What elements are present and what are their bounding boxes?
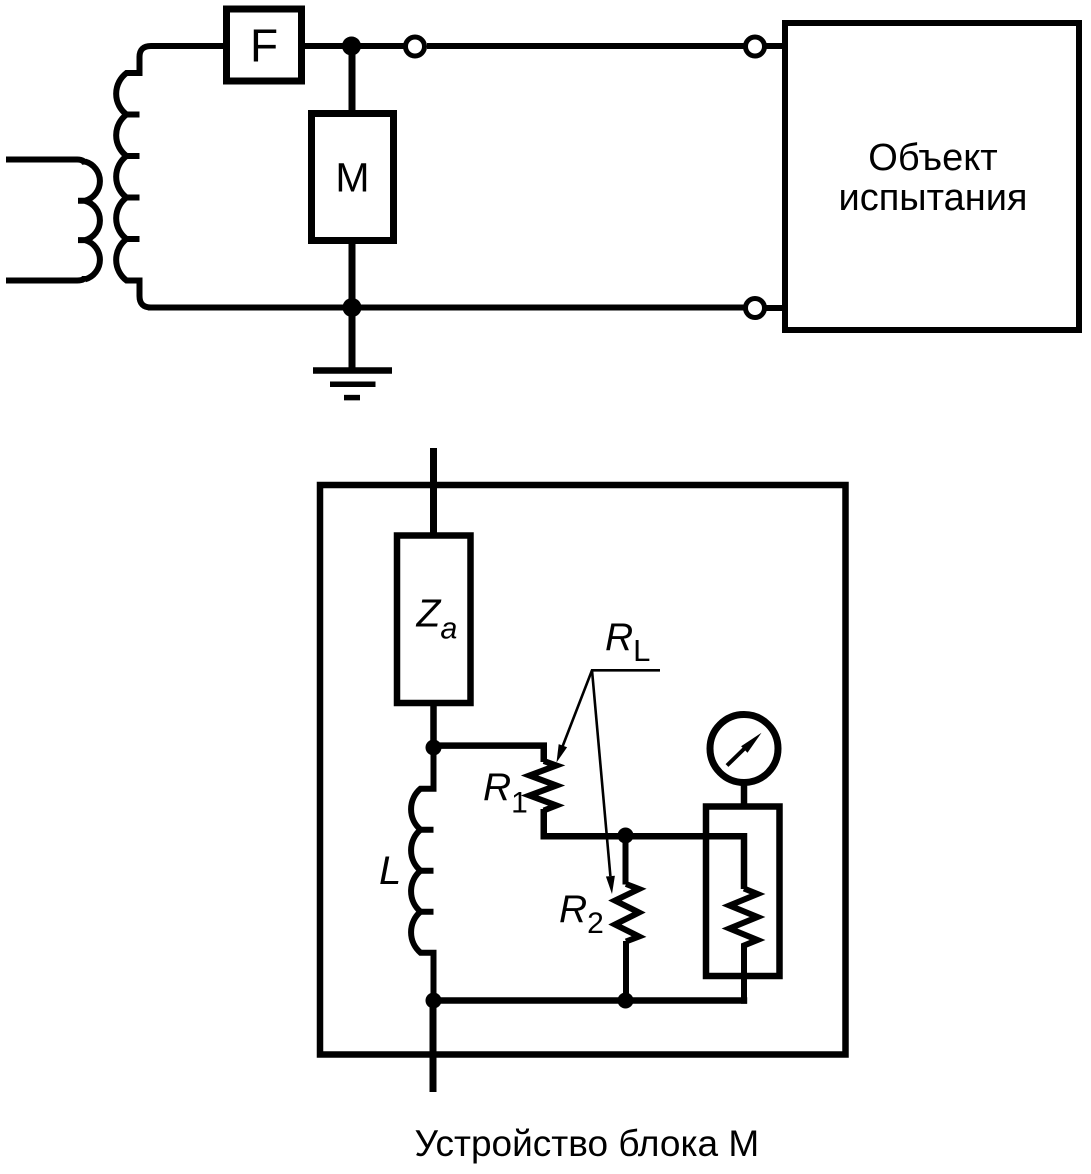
resistor R2 leads and zigzag [615, 835, 639, 1001]
transformer T1 primary winding [6, 160, 100, 281]
wire terminal X1 to terminal X2 [427, 43, 744, 49]
node C (L/rail junction) [426, 993, 442, 1009]
terminal X2 [746, 37, 765, 56]
wire R1 to junction node B [544, 809, 626, 836]
ground wire [349, 308, 356, 369]
meter internal resistor [730, 889, 758, 1004]
svg-text:M: M [335, 155, 369, 201]
svg-text:L: L [379, 849, 401, 893]
ground symbol [313, 367, 392, 374]
svg-text:RL: RL [605, 616, 650, 668]
node B (R1/R2/meter junction) [618, 828, 634, 844]
resistor R1 [530, 761, 557, 811]
node A (Za/L/R1 junction) [426, 740, 442, 756]
terminal X3 [746, 299, 765, 318]
terminal X1 [406, 37, 425, 56]
impedance Za box [397, 536, 471, 704]
bottom rail [148, 305, 744, 311]
wire terminal X2 to test object [767, 43, 787, 49]
leader arrowhead to R2 [606, 876, 615, 894]
junction node on bottom rail [343, 298, 362, 317]
lead out of enclosure bottom [430, 1001, 437, 1093]
leader line RL to R2 [592, 670, 610, 876]
node D (R2/rail junction) [618, 993, 634, 1009]
meter stub [741, 783, 748, 807]
svg-text:Устройство блока М: Устройство блока М [415, 1123, 760, 1164]
svg-text:испытания: испытания [838, 177, 1027, 219]
fuse F box [227, 9, 302, 81]
device M box [312, 114, 394, 241]
top lead into enclosure [430, 448, 437, 535]
svg-text:R2: R2 [559, 888, 604, 940]
wire device M to bottom rail [349, 240, 356, 308]
meter gauge circle [710, 715, 778, 783]
meter body box [706, 807, 780, 977]
inductor L [411, 750, 433, 1001]
svg-text:Объект: Объект [868, 137, 997, 179]
wire node B to meter resistor [626, 836, 745, 889]
test object box [785, 23, 1079, 330]
wire terminal X3 to test object [767, 305, 787, 311]
wire node A to resistor R1 [434, 746, 544, 762]
junction node at fuse output [342, 37, 361, 56]
wire fuse to terminal X1 [305, 43, 404, 49]
bottom rail inside enclosure [434, 997, 748, 1004]
block M enclosure [320, 485, 846, 1055]
transformer T1 secondary winding [116, 46, 223, 308]
wire Za to node A [430, 703, 437, 750]
wire node to device M [349, 46, 356, 113]
leader line RL [560, 670, 660, 753]
svg-text:R1: R1 [483, 766, 528, 820]
svg-text:F: F [250, 20, 278, 72]
meter needle [727, 747, 746, 766]
leader arrowhead to R1 [557, 744, 568, 762]
